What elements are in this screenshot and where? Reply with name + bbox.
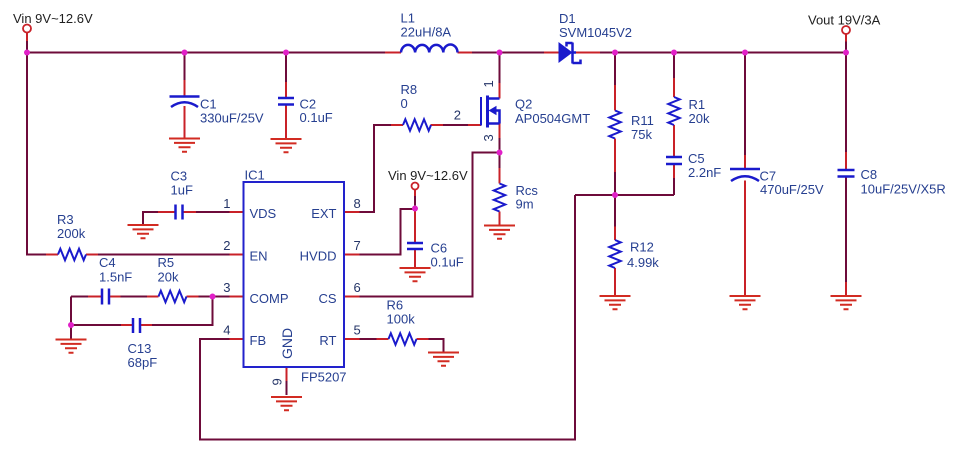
- svg-text:470uF/25V: 470uF/25V: [760, 182, 824, 197]
- svg-text:C1: C1: [200, 97, 217, 112]
- svg-text:9m: 9m: [516, 197, 534, 212]
- svg-text:R3: R3: [57, 212, 74, 227]
- svg-text:330uF/25V: 330uF/25V: [200, 110, 264, 125]
- svg-text:C6: C6: [431, 240, 448, 255]
- svg-text:C13: C13: [128, 341, 152, 356]
- svg-text:R12: R12: [630, 240, 654, 255]
- svg-text:8: 8: [354, 196, 361, 211]
- svg-text:FB: FB: [250, 333, 267, 348]
- svg-text:1: 1: [223, 196, 230, 211]
- svg-text:5: 5: [354, 323, 361, 338]
- svg-text:GND: GND: [279, 328, 295, 359]
- svg-text:Vin 9V~12.6V: Vin 9V~12.6V: [13, 11, 93, 26]
- svg-text:RT: RT: [319, 333, 336, 348]
- svg-text:R8: R8: [401, 82, 418, 97]
- svg-text:IC1: IC1: [245, 168, 265, 183]
- svg-text:EXT: EXT: [311, 206, 336, 221]
- svg-text:0.1uF: 0.1uF: [300, 110, 333, 125]
- svg-text:1.5nF: 1.5nF: [99, 269, 132, 284]
- svg-text:D1: D1: [559, 11, 576, 26]
- svg-text:FP5207: FP5207: [301, 370, 347, 385]
- svg-text:R5: R5: [158, 255, 175, 270]
- svg-text:2: 2: [223, 238, 230, 253]
- svg-text:R11: R11: [631, 113, 654, 128]
- svg-text:1: 1: [481, 80, 496, 87]
- svg-text:2.2nF: 2.2nF: [688, 165, 721, 180]
- svg-text:20k: 20k: [689, 111, 710, 126]
- svg-text:75k: 75k: [631, 127, 652, 142]
- svg-text:COMP: COMP: [250, 291, 289, 306]
- svg-text:7: 7: [354, 238, 361, 253]
- svg-text:Vout 19V/3A: Vout 19V/3A: [808, 13, 881, 28]
- svg-text:3: 3: [223, 280, 230, 295]
- svg-text:4: 4: [223, 323, 230, 338]
- svg-text:1uF: 1uF: [171, 182, 193, 197]
- svg-text:R1: R1: [689, 97, 706, 112]
- svg-text:VDS: VDS: [250, 206, 277, 221]
- svg-text:AP0504GMT: AP0504GMT: [515, 111, 590, 126]
- svg-text:CS: CS: [318, 291, 336, 306]
- svg-text:20k: 20k: [158, 269, 179, 284]
- svg-text:0: 0: [401, 96, 408, 111]
- svg-text:L1: L1: [401, 11, 415, 26]
- svg-text:3: 3: [481, 134, 496, 141]
- svg-text:C3: C3: [171, 168, 188, 183]
- svg-text:HVDD: HVDD: [300, 249, 337, 264]
- svg-text:10uF/25V/X5R: 10uF/25V/X5R: [861, 182, 946, 197]
- svg-text:C8: C8: [861, 167, 878, 182]
- svg-text:C4: C4: [99, 255, 116, 270]
- svg-text:6: 6: [354, 280, 361, 295]
- svg-text:4.99k: 4.99k: [627, 255, 659, 270]
- svg-text:22uH/8A: 22uH/8A: [401, 25, 452, 40]
- svg-text:C5: C5: [688, 151, 705, 166]
- svg-text:68pF: 68pF: [128, 355, 158, 370]
- svg-text:Q2: Q2: [515, 97, 532, 112]
- svg-text:EN: EN: [250, 249, 268, 264]
- svg-text:R6: R6: [387, 298, 404, 313]
- svg-text:Vin 9V~12.6V: Vin 9V~12.6V: [388, 168, 468, 183]
- svg-text:9: 9: [270, 378, 285, 385]
- svg-text:2: 2: [454, 108, 461, 123]
- svg-text:100k: 100k: [387, 312, 416, 327]
- svg-text:0.1uF: 0.1uF: [431, 254, 464, 269]
- svg-text:SVM1045V2: SVM1045V2: [559, 25, 632, 40]
- svg-text:200k: 200k: [57, 226, 86, 241]
